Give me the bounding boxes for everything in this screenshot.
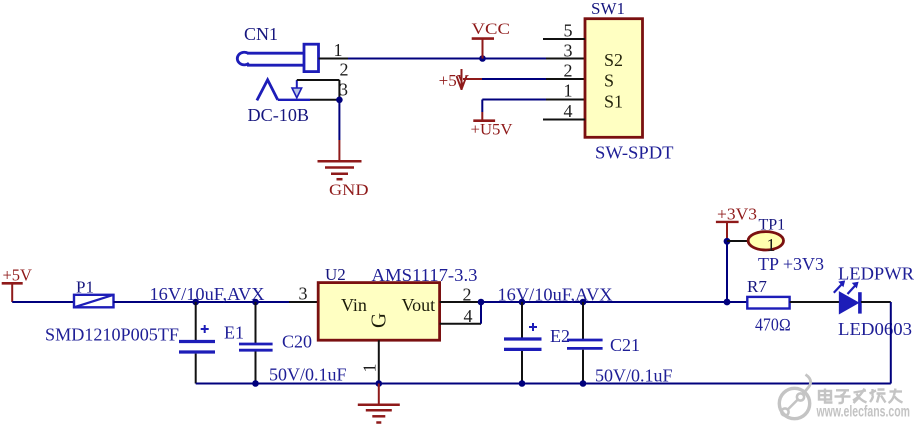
svg-text:U2: U2 (325, 265, 346, 284)
svg-text:16V/10uF,AVX: 16V/10uF,AVX (150, 284, 265, 304)
SW1 pin 2 stub (546, 78, 585, 80)
svg-text:LED0603: LED0603 (838, 319, 912, 339)
svg-text:E1: E1 (224, 323, 244, 343)
capacitor C20 (239, 302, 273, 384)
wire R7 to LED (790, 301, 840, 303)
SW1 pin 5 stub (543, 38, 585, 40)
wire +3V3 node down to rail (726, 241, 728, 302)
SW1 pin 3 stub (546, 58, 585, 60)
junction E2 top (519, 299, 526, 306)
svg-text:Vout: Vout (402, 295, 436, 315)
svg-text:C21: C21 (610, 335, 640, 355)
SW1 pin 1 stub (546, 99, 585, 101)
svg-text:1: 1 (564, 81, 573, 101)
svg-text:+5V: +5V (3, 266, 33, 285)
svg-text:1: 1 (767, 235, 776, 255)
svg-text:2: 2 (340, 60, 349, 80)
test point TP1 wire (727, 240, 749, 242)
power port +U5V (471, 121, 514, 139)
resistor R7 (747, 297, 789, 309)
svg-text:Vin: Vin (341, 295, 367, 315)
switch SW1 body (585, 19, 643, 138)
svg-text:3: 3 (339, 80, 348, 100)
svg-text:S2: S2 (604, 50, 623, 70)
svg-text:2: 2 (564, 61, 573, 81)
capacitor E1 (electrolytic) (179, 302, 215, 384)
svg-text:50V/0.1uF: 50V/0.1uF (269, 365, 347, 385)
wire right edge down to rail (890, 302, 892, 384)
LED LEDPWR symbol (834, 280, 860, 313)
watermark logo (elecfans) (779, 375, 810, 419)
CN1 pin 1 stub (319, 58, 349, 60)
svg-text:G: G (366, 313, 390, 328)
U2 pin 2 stub (440, 301, 481, 303)
svg-text:2: 2 (463, 285, 472, 305)
wire P1 to U2 pin3 (114, 301, 290, 303)
wire U2 pin4 up to output node (480, 302, 482, 324)
svg-text:R7: R7 (747, 277, 767, 296)
junction C20 bottom (252, 380, 259, 387)
svg-text:TP +3V3: TP +3V3 (758, 254, 824, 274)
svg-text:1: 1 (360, 364, 380, 373)
wire CN1 pin3 to GND (338, 100, 340, 162)
svg-text:P1: P1 (76, 278, 94, 297)
junction at VCC (479, 55, 486, 62)
svg-text:LEDPWR: LEDPWR (838, 264, 914, 284)
svg-text:VCC: VCC (472, 21, 511, 38)
svg-text:4: 4 (464, 306, 473, 326)
svg-text:GND: GND (329, 182, 369, 199)
CN1 pin 2 loop wire (297, 80, 340, 100)
svg-text:SW-SPDT: SW-SPDT (595, 143, 674, 163)
svg-text:3: 3 (299, 284, 308, 304)
power port +5V (to SW1 pin 2) (439, 69, 470, 90)
wire bottom rail (196, 383, 891, 385)
power port +3V3 (716, 204, 757, 241)
regulator U2 body (318, 283, 439, 341)
junction C21 top (580, 299, 587, 306)
svg-text:50V/0.1uF: 50V/0.1uF (595, 366, 673, 386)
junction CN1 pin 3 (336, 97, 343, 104)
ground GND (top) (318, 161, 362, 179)
junction C21 bottom (580, 380, 587, 387)
watermark chinese text (stylized) (819, 389, 903, 404)
SW1 pin 4 stub (543, 119, 585, 121)
wire LED to right edge (861, 301, 891, 303)
power port VCC (472, 21, 511, 59)
svg-text:www.elecfans.com: www.elecfans.com (816, 404, 910, 421)
svg-text:TP1: TP1 (759, 217, 786, 234)
svg-text:4: 4 (564, 101, 573, 121)
svg-text:E2: E2 (550, 326, 570, 346)
fuse P1 (74, 295, 114, 308)
svg-text:AMS1117-3.3: AMS1117-3.3 (372, 265, 478, 285)
svg-text:C20: C20 (282, 332, 312, 352)
wire U2 pin2 node to R7 (3.3V rail) (481, 301, 747, 303)
svg-text:SMD1210P005TF: SMD1210P005TF (45, 325, 179, 345)
capacitor C21 (567, 302, 603, 384)
power port +5V (input, bottom left) (2, 266, 32, 303)
svg-text:3: 3 (564, 41, 573, 61)
svg-text:SW1: SW1 (591, 0, 625, 18)
wire CN1 pin1 to SW1 pin3 (348, 58, 546, 60)
wire SW1 pin1 to +U5V (482, 100, 546, 121)
junction U2 pin1 at rail (376, 380, 383, 387)
junction E2 bottom (519, 380, 526, 387)
svg-text:5: 5 (564, 21, 573, 41)
svg-text:CN1: CN1 (244, 24, 278, 44)
svg-text:16V/10uF,AVX: 16V/10uF,AVX (498, 285, 613, 305)
test point TP1 pad (748, 232, 783, 250)
svg-text:S: S (604, 70, 614, 90)
junction TP1 node (724, 238, 731, 245)
svg-text:470Ω: 470Ω (755, 315, 791, 335)
svg-text:S1: S1 (604, 92, 623, 112)
svg-text:DC-10B: DC-10B (248, 105, 310, 125)
CN1 pin 3 segment (310, 99, 339, 101)
connector CN1 barrel jack body (237, 44, 318, 71)
U2 pin 4 stub (440, 323, 481, 325)
svg-text:+U5V: +U5V (471, 122, 514, 139)
ground under U2 (358, 384, 400, 423)
wire +5V to SW1 pin2 (463, 78, 546, 80)
svg-text:1: 1 (334, 40, 343, 60)
U2 pin 1 lead (378, 340, 380, 383)
wire +5V to P1 (12, 301, 74, 303)
junction +3V3 at rail (724, 299, 731, 306)
CN1 switch contact (^ lever and arrow) (257, 80, 310, 101)
svg-text:+3V3: +3V3 (717, 204, 757, 223)
U2 pin 3 stub (289, 301, 318, 303)
junction U2 pin2/pin4 (478, 299, 485, 306)
capacitor E2 (electrolytic) (504, 302, 542, 384)
junction E1 top (192, 299, 199, 306)
junction C20 top (252, 299, 259, 306)
